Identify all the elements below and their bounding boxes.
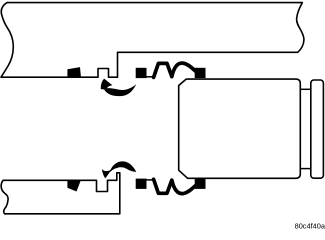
svg-text:80c4f40a: 80c4f40a: [295, 222, 325, 231]
